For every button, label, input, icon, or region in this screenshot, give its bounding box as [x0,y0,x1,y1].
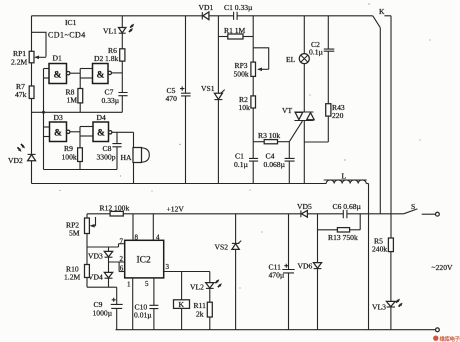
wire L drop [368,184,370,330]
resistor R7 [29,86,34,154]
lamp EL [299,16,309,112]
svg-text:8: 8 [135,234,139,242]
svg-text:D2: D2 [94,54,103,63]
terminal lower [436,328,440,332]
svg-text:0.01µ: 0.01µ [134,311,152,320]
capacitor C7 [118,93,127,113]
svg-text:VD4: VD4 [88,273,103,282]
wire pins 2 and 6 [109,262,125,272]
wire D2 input branch [80,69,92,89]
wire pin7 node [87,244,125,247]
svg-text:1.8k: 1.8k [105,54,118,63]
svg-text:HA: HA [121,153,132,162]
svg-text:VD5: VD5 [297,202,312,211]
diode VD5 [301,210,343,217]
svg-text:1M: 1M [67,96,78,105]
svg-text:10k: 10k [239,103,251,112]
resistor R9 [78,148,83,170]
wire +12V rail [87,213,301,215]
svg-text:5: 5 [145,280,149,288]
svg-text:D1: D1 [53,54,62,63]
svg-text:&: & [54,129,62,139]
scan specks [59,3,430,288]
svg-text:1: 1 [127,281,131,289]
capacitor C8 [112,132,121,169]
svg-text:3300p: 3300p [97,153,116,162]
resistor R6 [120,49,125,93]
capacitor C11 [282,214,294,330]
svg-text:IC2: IC2 [137,256,152,266]
wire top rail left [32,15,203,17]
resistor R12 [110,211,123,216]
wire D4 input branch [80,127,93,148]
wire D1 input branch [44,69,50,170]
resistor R3 [253,140,289,144]
resistor R8 [78,89,83,113]
svg-text:VD6: VD6 [298,262,313,271]
pin 8 [133,214,139,242]
svg-text:470µ: 470µ [269,271,285,280]
svg-text:&: & [54,71,62,81]
svg-text:R3 10k: R3 10k [258,131,280,140]
svg-text:D3: D3 [54,113,63,122]
svg-text:VL1: VL1 [103,27,117,36]
svg-text:2.2M: 2.2M [11,58,27,67]
LED VL2 [206,272,222,289]
capacitor C2 [324,16,335,104]
svg-text:R12 100k: R12 100k [100,204,130,213]
resistor R13 [318,214,361,263]
pin 1 [127,278,133,330]
svg-text:R13 750k: R13 750k [328,233,358,242]
wire K right drop [390,16,392,238]
diode VD6 [313,263,321,330]
svg-text:7: 7 [120,238,124,246]
svg-text:IC1: IC1 [65,18,77,27]
svg-text:K: K [379,7,385,16]
capacitor C10 [149,278,158,330]
potentiometer RP2 [85,214,96,265]
svg-text:100k: 100k [62,153,77,162]
relay K [174,272,190,330]
svg-text:1000µ: 1000µ [93,309,113,318]
svg-text:470: 470 [166,94,178,103]
gate D2 [93,64,123,84]
gate D3 [50,122,81,142]
svg-text:2: 2 [120,255,124,263]
resistor R43 [304,104,331,142]
svg-text:0.1µ: 0.1µ [309,48,323,57]
svg-text:K: K [179,300,185,309]
wire left rail [31,16,33,52]
svg-text:+12V: +12V [167,205,185,214]
svg-text:S: S [411,202,415,211]
svg-text:6: 6 [120,265,124,273]
svg-text:5M: 5M [69,229,80,238]
wire node A mid rail [32,111,123,113]
svg-text:CD1~CD4: CD1~CD4 [48,31,86,40]
wire R10 VD4 C9 bottom link [87,286,117,288]
capacitor C1 (top, series) [234,12,373,20]
resistor R1 [218,34,253,39]
speaker HA [133,132,149,183]
svg-text:2k: 2k [196,310,204,319]
wire K lever drop [379,28,381,214]
svg-text:3: 3 [166,263,170,271]
wire triac gate [289,121,302,142]
wire bottom rail [116,329,436,331]
svg-text:维库电子网: 维库电子网 [440,335,460,342]
wire gate feedback bottom [44,169,118,171]
inductor L [324,180,369,184]
svg-text:VD1: VD1 [199,3,214,12]
switch K [373,16,391,28]
capacitor C6 [343,210,403,218]
watermark [433,335,460,342]
resistor R11 [207,288,212,329]
svg-text:R1 1M: R1 1M [224,26,246,35]
diode VD3 [104,247,112,272]
svg-text:C1 0.33µ: C1 0.33µ [224,3,253,12]
LED VL3 [386,299,402,330]
thyristor VS2 [232,214,241,330]
svg-text:220: 220 [332,111,344,120]
gate D1 [49,64,80,84]
svg-text:D4: D4 [97,113,106,122]
gate D4 [93,122,134,142]
capacitor C1 (lower) [249,158,258,183]
potentiometer RP1 [29,32,46,86]
svg-text:VL3: VL3 [372,303,386,312]
svg-text:0.1µ: 0.1µ [234,160,248,169]
svg-text:VD2: VD2 [8,156,23,165]
resistor R5 [388,238,393,301]
switch S [404,209,440,216]
potentiometer RP3 [251,16,269,96]
svg-text:~220V: ~220V [432,263,453,272]
svg-text:&: & [97,129,105,139]
capacitor C9 [111,287,123,330]
svg-text:0.33µ: 0.33µ [102,96,120,105]
svg-text:VS1: VS1 [201,84,215,93]
svg-text:R6: R6 [108,46,117,55]
wire bottom rail upper section [32,183,327,185]
svg-text:VT: VT [282,106,292,115]
svg-text:240k: 240k [372,245,387,254]
resistor R2 [251,96,256,158]
svg-text:VL2: VL2 [190,283,204,292]
photodiode VD2 [18,144,36,184]
junction dot [42,111,45,114]
svg-text:EL: EL [286,55,296,64]
resistor R10 [85,265,90,288]
svg-text:&: & [97,71,105,81]
svg-text:4: 4 [156,234,160,242]
svg-text:VS2: VS2 [215,243,229,252]
svg-text:47k: 47k [15,90,27,99]
svg-text:L: L [342,172,347,181]
diode VD4 [104,272,112,287]
svg-text:500k: 500k [234,70,249,79]
capacitor C4 [285,142,295,184]
capacitor C5 [180,16,191,184]
triac VT [294,112,314,184]
diode VD1 [202,12,233,20]
pin 4 [153,214,160,242]
svg-text:VD3: VD3 [88,252,103,261]
LED VL1 [119,16,135,49]
IC U IC2 [125,240,164,278]
svg-text:1.2M: 1.2M [64,273,80,282]
svg-text:0.068µ: 0.068µ [264,160,286,169]
svg-text:C6 0.68µ: C6 0.68µ [333,202,362,211]
pin 3 wire [164,263,210,272]
thyristor VS1 [214,16,224,184]
